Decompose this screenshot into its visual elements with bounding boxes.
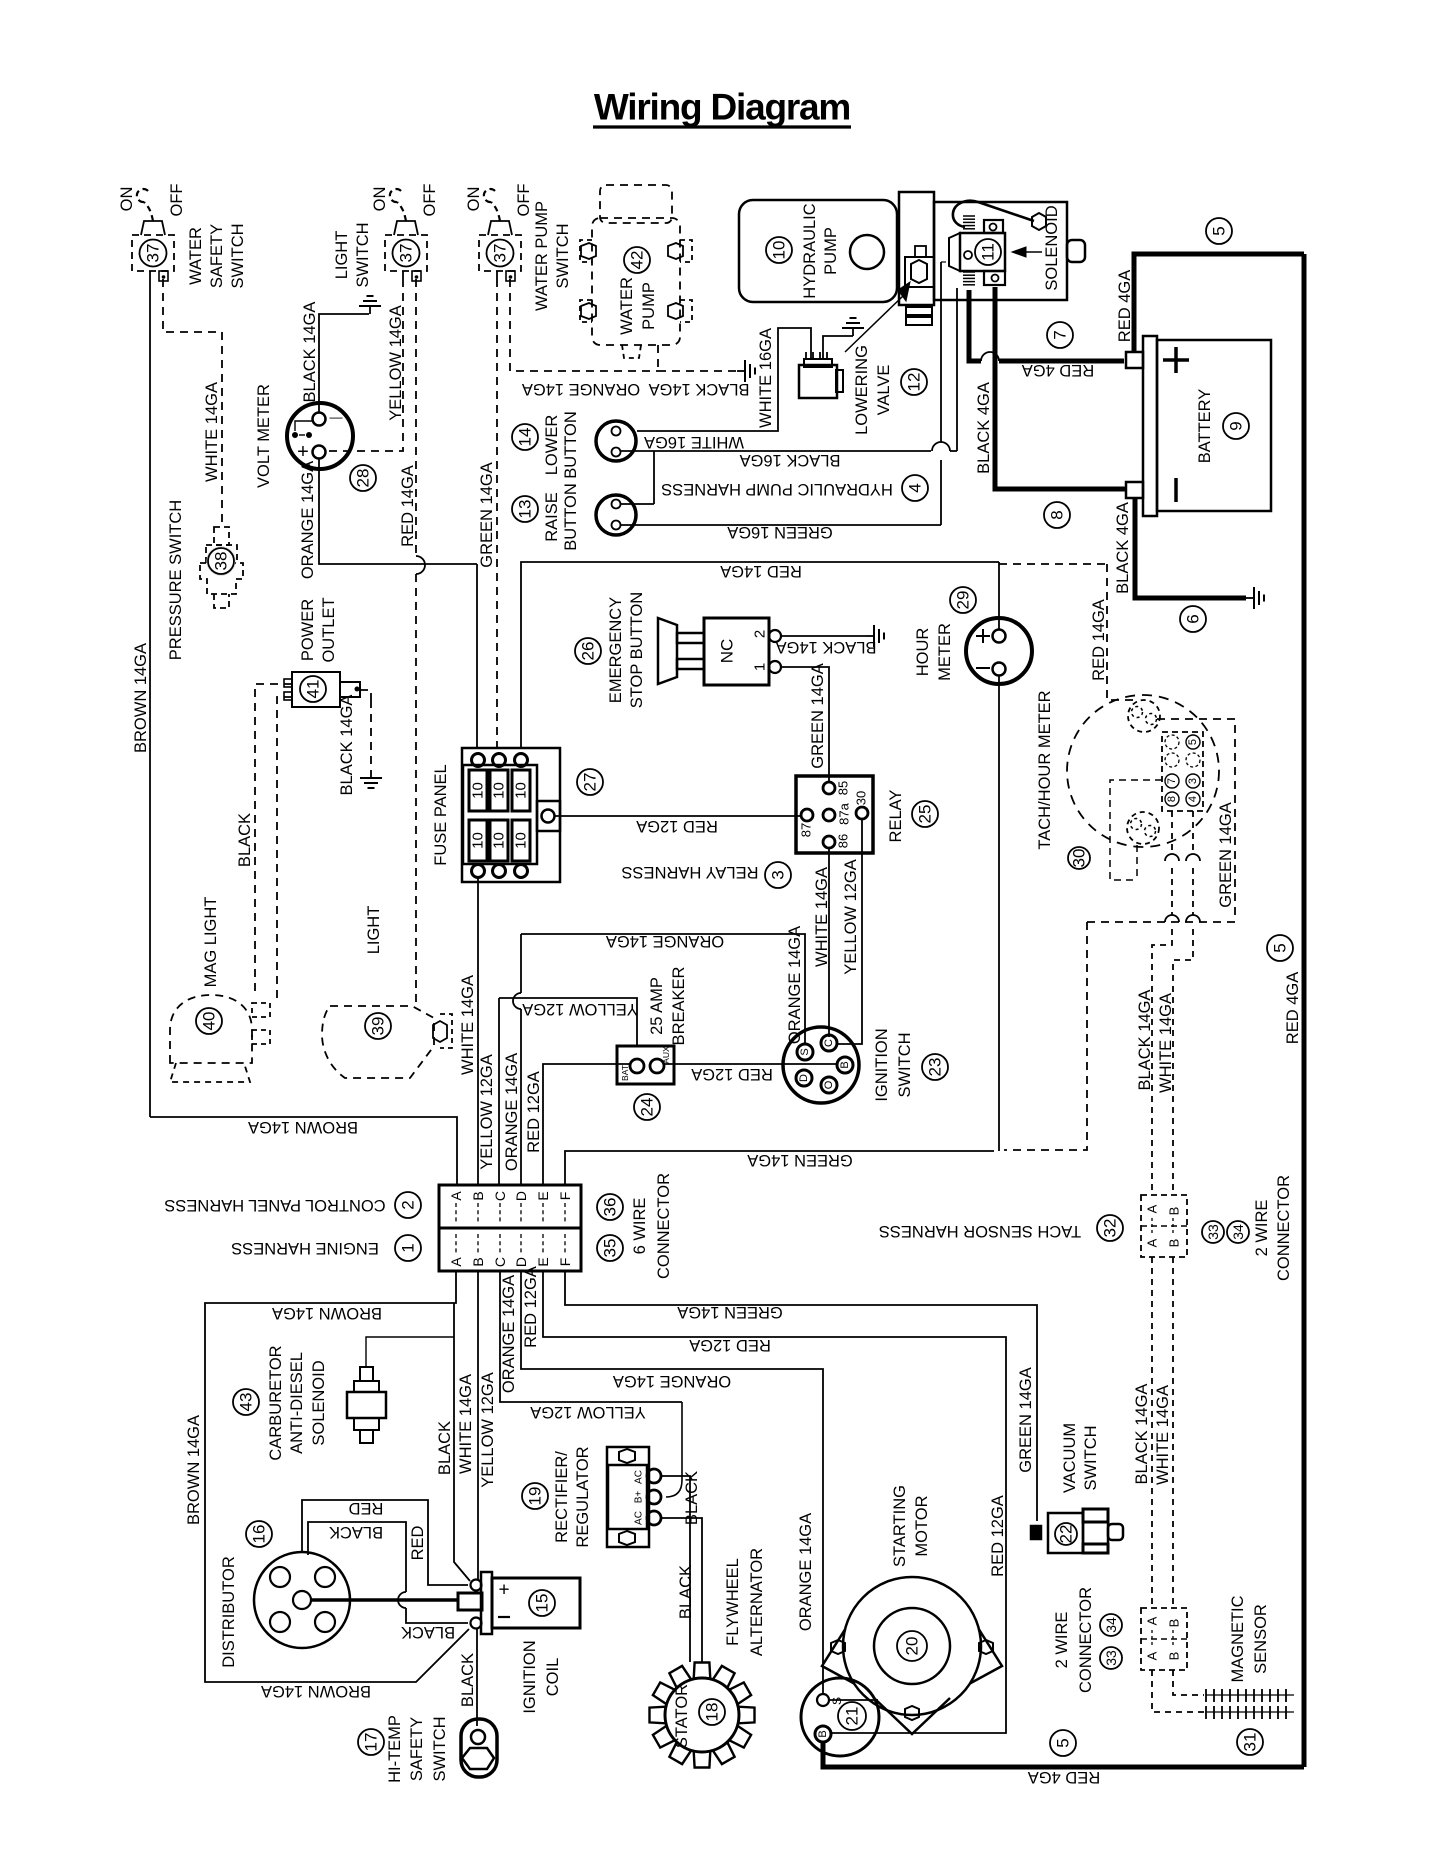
svg-text:SWITCH: SWITCH bbox=[554, 223, 572, 288]
vacuum switch 22 bbox=[1031, 1526, 1041, 1539]
svg-text:RED 12GA: RED 12GA bbox=[522, 1266, 540, 1348]
svg-text:BLACK 14GA: BLACK 14GA bbox=[1136, 990, 1154, 1091]
svg-text:CONTROL PANEL HARNESS: CONTROL PANEL HARNESS bbox=[164, 1196, 385, 1214]
raise button 13 bbox=[596, 495, 636, 535]
svg-text:BLACK: BLACK bbox=[401, 1623, 455, 1641]
svg-text:8: 8 bbox=[1166, 796, 1178, 802]
svg-text:PRESSURE SWITCH: PRESSURE SWITCH bbox=[167, 500, 185, 660]
svg-text:YELLOW 12GA: YELLOW 12GA bbox=[522, 1000, 638, 1018]
svg-text:BLACK: BLACK bbox=[236, 813, 254, 867]
svg-text:NC: NC bbox=[718, 639, 737, 664]
svg-text:ALTERNATOR: ALTERNATOR bbox=[748, 1548, 766, 1656]
svg-text:3: 3 bbox=[769, 870, 788, 879]
svg-text:10: 10 bbox=[770, 241, 789, 260]
power outlet 41 bbox=[292, 672, 340, 707]
svg-text:30: 30 bbox=[854, 791, 869, 805]
svg-text:D: D bbox=[798, 1074, 810, 1082]
light 39 bbox=[322, 1006, 434, 1078]
starting motor 20 bbox=[822, 1612, 866, 1690]
svg-text:6: 6 bbox=[1184, 614, 1203, 623]
yellow 12GA relay 30 to ignition bbox=[837, 819, 862, 1044]
svg-text:SAFETY: SAFETY bbox=[208, 224, 226, 288]
red 4GA solenoid to battery+ bbox=[969, 290, 981, 361]
svg-text:WATER: WATER bbox=[187, 227, 205, 285]
svg-text:D: D bbox=[513, 1257, 529, 1267]
black wire coil to hi-temp switch bbox=[476, 1629, 478, 1726]
svg-text:PUMP: PUMP bbox=[822, 227, 840, 275]
svg-text:BLACK 14GA: BLACK 14GA bbox=[338, 695, 356, 796]
svg-text:42: 42 bbox=[628, 251, 647, 270]
svg-text:YELLOW 12GA: YELLOW 12GA bbox=[842, 859, 860, 975]
svg-text:BLACK 14GA: BLACK 14GA bbox=[649, 380, 750, 398]
brown 14GA switch to connector A bbox=[150, 1117, 457, 1185]
arrow from lowering valve to pump bolt bbox=[845, 296, 903, 352]
svg-text:S: S bbox=[799, 1048, 811, 1055]
brown 14GA engine harness box bbox=[205, 1271, 469, 1682]
svg-text:12: 12 bbox=[905, 373, 924, 392]
svg-text:C: C bbox=[492, 1191, 508, 1201]
svg-text:86: 86 bbox=[836, 834, 851, 848]
svg-text:10: 10 bbox=[513, 832, 530, 849]
black 14GA stop button to ground bbox=[781, 635, 866, 637]
svg-text:YELLOW 14GA: YELLOW 14GA bbox=[387, 305, 405, 421]
yellow 12GA wire C up bbox=[498, 998, 500, 1185]
svg-text:10: 10 bbox=[470, 782, 487, 799]
svg-text:23: 23 bbox=[926, 1058, 945, 1077]
svg-text:39: 39 bbox=[369, 1017, 388, 1036]
svg-text:BLACK: BLACK bbox=[329, 1523, 383, 1541]
6 wire connector 35 36 bbox=[439, 1185, 581, 1271]
dashed wires to lower connector bbox=[1151, 1257, 1153, 1608]
stator 18 bbox=[650, 1663, 755, 1768]
svg-text:PUMP: PUMP bbox=[640, 282, 658, 330]
svg-text:RED 12GA: RED 12GA bbox=[691, 1065, 773, 1083]
magnetic sensor 31 bbox=[1152, 1670, 1204, 1712]
black 16GA wire bbox=[621, 450, 931, 452]
orange 14GA dashed water pump switch bbox=[510, 279, 658, 371]
svg-text:B: B bbox=[1167, 1207, 1182, 1216]
svg-text:+: + bbox=[498, 1580, 509, 1601]
svg-text:HI-TEMP: HI-TEMP bbox=[386, 1715, 404, 1783]
svg-text:5: 5 bbox=[1187, 739, 1199, 745]
white 14GA wire B down through coil bbox=[477, 1271, 479, 1580]
svg-text:AC: AC bbox=[634, 1511, 645, 1525]
svg-text:YELLOW 12GA: YELLOW 12GA bbox=[530, 1403, 646, 1421]
svg-text:WHITE 14GA: WHITE 14GA bbox=[203, 382, 221, 482]
svg-text:14: 14 bbox=[516, 428, 535, 447]
svg-text:GREEN 14GA: GREEN 14GA bbox=[809, 663, 827, 768]
svg-text:STATOR: STATOR bbox=[673, 1684, 691, 1748]
svg-text:B: B bbox=[839, 1061, 851, 1068]
svg-text:SWITCH: SWITCH bbox=[1082, 1425, 1100, 1490]
svg-text:RED 14GA: RED 14GA bbox=[720, 562, 802, 580]
svg-text:A: A bbox=[1145, 1204, 1160, 1213]
svg-text:IGNITION: IGNITION bbox=[521, 1640, 539, 1713]
switch 37 light switch bbox=[385, 235, 427, 271]
svg-text:LOWER: LOWER bbox=[543, 415, 561, 476]
red 4GA starter B to bottom border bbox=[823, 1742, 1304, 1767]
svg-text:87a: 87a bbox=[837, 802, 852, 824]
svg-text:CONNECTOR: CONNECTOR bbox=[1275, 1175, 1293, 1281]
mag light 40 bbox=[170, 995, 252, 1063]
white 14GA relay 86 to ignition C bbox=[828, 848, 830, 1037]
switch 37 water safety switch bbox=[132, 235, 174, 271]
distributor 16 bbox=[254, 1552, 350, 1648]
svg-text:EMERGENCY: EMERGENCY bbox=[607, 597, 625, 703]
svg-text:31: 31 bbox=[1241, 1733, 1260, 1752]
svg-text:36: 36 bbox=[601, 1198, 620, 1217]
svg-text:15: 15 bbox=[533, 1594, 552, 1613]
svg-text:RED 12GA: RED 12GA bbox=[989, 1495, 1007, 1577]
svg-text:OFF: OFF bbox=[421, 184, 439, 217]
relay 25 bbox=[796, 776, 873, 853]
svg-text:43: 43 bbox=[237, 1393, 256, 1412]
svg-text:RED: RED bbox=[349, 1499, 384, 1517]
svg-text:A: A bbox=[1145, 1238, 1160, 1247]
svg-text:32: 32 bbox=[1101, 1219, 1120, 1238]
svg-text:SWITCH: SWITCH bbox=[431, 1716, 449, 1781]
svg-text:38: 38 bbox=[212, 552, 231, 571]
black 4GA solenoid to battery- bbox=[995, 287, 1125, 489]
svg-text:BLACK 4GA: BLACK 4GA bbox=[1114, 502, 1132, 594]
svg-text:MAGNETIC: MAGNETIC bbox=[1229, 1595, 1247, 1682]
svg-text:WHITE 14GA: WHITE 14GA bbox=[1154, 1385, 1172, 1485]
svg-text:1: 1 bbox=[752, 663, 769, 671]
green 14GA wire F up to bus bbox=[565, 1151, 994, 1185]
svg-text:22: 22 bbox=[1057, 1525, 1076, 1544]
svg-text:DISTRIBUTOR: DISTRIBUTOR bbox=[220, 1556, 238, 1668]
white 16GA wire lower button to valve bbox=[637, 328, 811, 431]
svg-text:2: 2 bbox=[399, 1200, 418, 1209]
svg-text:ORANGE 14GA: ORANGE 14GA bbox=[522, 380, 640, 398]
svg-text:YELLOW 12GA: YELLOW 12GA bbox=[478, 1054, 496, 1170]
svg-text:O: O bbox=[823, 1080, 835, 1089]
svg-text:LIGHT: LIGHT bbox=[333, 231, 351, 280]
svg-text:B: B bbox=[817, 1730, 829, 1737]
svg-text:41: 41 bbox=[304, 680, 323, 699]
wire water pump to orange/black dashed bbox=[657, 345, 659, 371]
svg-text:2 WIRE: 2 WIRE bbox=[1053, 1612, 1071, 1669]
green 14GA dashed tach loop bbox=[1157, 719, 1235, 917]
svg-text:SWITCH: SWITCH bbox=[354, 222, 372, 287]
svg-text:B: B bbox=[470, 1257, 486, 1266]
svg-text:10: 10 bbox=[491, 832, 508, 849]
svg-text:METER: METER bbox=[936, 623, 954, 681]
svg-text:GREEN 14GA: GREEN 14GA bbox=[1217, 802, 1235, 907]
svg-text:B+: B+ bbox=[634, 1491, 645, 1504]
switch 37 water pump switch bbox=[479, 235, 521, 271]
svg-text:WHITE 16GA: WHITE 16GA bbox=[757, 328, 775, 428]
solenoid relay internals bbox=[960, 233, 1005, 271]
svg-text:AUX: AUX bbox=[661, 1046, 671, 1064]
hydraulic pump 10 bbox=[739, 200, 897, 302]
svg-text:OFF: OFF bbox=[168, 184, 186, 217]
lower button 14 bbox=[596, 421, 636, 461]
svg-text:REGULATOR: REGULATOR bbox=[574, 1446, 592, 1547]
black 14GA volt meter to ground bbox=[319, 314, 369, 413]
svg-text:ANTI-DIESEL: ANTI-DIESEL bbox=[288, 1352, 306, 1454]
svg-text:MOTOR: MOTOR bbox=[913, 1495, 931, 1556]
svg-text:BUTTON: BUTTON bbox=[562, 411, 580, 479]
svg-text:3: 3 bbox=[1187, 778, 1199, 784]
tach wires down to 2 wire connector bbox=[1171, 811, 1173, 855]
svg-text:BLACK 4GA: BLACK 4GA bbox=[975, 382, 993, 474]
fuse panel 27 bbox=[462, 748, 560, 882]
svg-text:C: C bbox=[492, 1257, 508, 1267]
svg-text:6 WIRE: 6 WIRE bbox=[631, 1198, 649, 1255]
starter terminals 21 bbox=[801, 1678, 879, 1756]
svg-text:WHITE 14GA: WHITE 14GA bbox=[457, 1374, 475, 1474]
svg-text:F: F bbox=[557, 1192, 573, 1201]
fuse panel output tab bbox=[537, 801, 560, 831]
svg-text:RED 4GA: RED 4GA bbox=[1284, 972, 1302, 1044]
svg-text:17: 17 bbox=[362, 1733, 381, 1752]
svg-text:33: 33 bbox=[1205, 1224, 1221, 1240]
svg-text:CARBURETOR: CARBURETOR bbox=[267, 1345, 285, 1460]
svg-text:HYDRAULIC: HYDRAULIC bbox=[801, 203, 819, 298]
svg-text:BREAKER: BREAKER bbox=[670, 966, 688, 1045]
arrow pointing to solenoid bbox=[1026, 251, 1042, 253]
green 14GA dashed water pump switch to fuse bbox=[496, 279, 498, 748]
svg-text:ORANGE 14GA: ORANGE 14GA bbox=[500, 1275, 518, 1393]
solenoid 11 body bbox=[934, 202, 1067, 300]
volt meter 28 bbox=[287, 403, 353, 469]
svg-text:RELAY HARNESS: RELAY HARNESS bbox=[622, 863, 759, 881]
svg-text:ON: ON bbox=[465, 187, 483, 212]
svg-text:ORANGE 14GA: ORANGE 14GA bbox=[797, 1513, 815, 1631]
svg-text:ORANGE 14GA: ORANGE 14GA bbox=[613, 1372, 731, 1390]
svg-text:VALVE: VALVE bbox=[875, 365, 893, 416]
hi-temp safety switch 17 bbox=[461, 1719, 497, 1777]
svg-text:8: 8 bbox=[1048, 510, 1067, 519]
svg-text:BROWN 14GA: BROWN 14GA bbox=[261, 1682, 371, 1700]
svg-text:TACH SENSOR HARNESS: TACH SENSOR HARNESS bbox=[879, 1222, 1081, 1240]
svg-text:HYDRAULIC PUMP HARNESS: HYDRAULIC PUMP HARNESS bbox=[661, 480, 893, 498]
svg-text:4: 4 bbox=[1187, 796, 1199, 802]
svg-text:RED 4GA: RED 4GA bbox=[1022, 361, 1094, 379]
svg-text:B: B bbox=[1167, 1619, 1182, 1628]
svg-text:WATER: WATER bbox=[618, 277, 636, 335]
2 wire connector 33 34 lower bbox=[1141, 1608, 1187, 1670]
pump mount bracket bbox=[899, 192, 934, 305]
svg-text:LOWERING: LOWERING bbox=[853, 345, 871, 435]
svg-text:STOP BUTTON: STOP BUTTON bbox=[628, 592, 646, 708]
svg-text:—: — bbox=[330, 410, 343, 425]
svg-text:LIGHT: LIGHT bbox=[365, 906, 383, 955]
svg-text:WHITE 14GA: WHITE 14GA bbox=[813, 867, 831, 967]
svg-text:FUSE PANEL: FUSE PANEL bbox=[432, 764, 450, 865]
red 12GA breaker AUX to ignition B bbox=[664, 1063, 838, 1065]
carburetor anti-diesel solenoid 43 bbox=[233, 1389, 259, 1415]
green 14GA stop button to relay 85 bbox=[781, 667, 829, 782]
svg-text:37: 37 bbox=[144, 244, 163, 263]
red 12GA fuse to relay 87 bbox=[555, 815, 800, 817]
svg-text:24: 24 bbox=[638, 1098, 657, 1117]
svg-text:34: 34 bbox=[1230, 1224, 1246, 1240]
svg-text:33: 33 bbox=[1103, 1650, 1119, 1666]
svg-text:26: 26 bbox=[579, 642, 598, 661]
svg-text:40: 40 bbox=[200, 1012, 219, 1031]
svg-text:13: 13 bbox=[516, 500, 535, 519]
svg-text:4: 4 bbox=[906, 483, 925, 492]
svg-text:RED: RED bbox=[409, 1526, 427, 1561]
black wires rectifier to stator bbox=[661, 1476, 690, 1662]
orange 14GA wire D up to ignition bbox=[520, 1009, 522, 1185]
svg-text:BROWN 14GA: BROWN 14GA bbox=[272, 1304, 382, 1322]
red 14GA bus wire bbox=[521, 562, 999, 748]
red wire distributor to coil+ bbox=[302, 1500, 468, 1585]
svg-text:35: 35 bbox=[601, 1239, 620, 1258]
svg-text:SOLENOID: SOLENOID bbox=[310, 1360, 328, 1445]
tach/hour meter 30 dashed circle bbox=[1067, 695, 1219, 847]
svg-text:OUTLET: OUTLET bbox=[320, 597, 338, 662]
black wire distributor to coil- bbox=[308, 1522, 406, 1592]
svg-text:10: 10 bbox=[491, 782, 508, 799]
svg-text:BLACK: BLACK bbox=[459, 1653, 477, 1707]
svg-text:Wiring Diagram: Wiring Diagram bbox=[594, 87, 850, 128]
yellow 14GA dashed light switch to volt meter bbox=[328, 279, 403, 451]
ground battery bbox=[1246, 597, 1254, 599]
red 4GA battery+ loop bbox=[1134, 254, 1304, 352]
svg-text:RECTIFIER/: RECTIFIER/ bbox=[553, 1451, 571, 1543]
svg-text:E: E bbox=[535, 1257, 551, 1266]
svg-text:37: 37 bbox=[491, 244, 510, 263]
svg-text:BLACK 14GA: BLACK 14GA bbox=[1133, 1384, 1151, 1485]
svg-text:85: 85 bbox=[836, 781, 851, 795]
svg-text:RED 14GA: RED 14GA bbox=[1090, 599, 1108, 681]
tach bottom connector bbox=[1127, 812, 1159, 844]
battery 9 bbox=[1126, 352, 1143, 368]
lowering valve 12 bbox=[799, 365, 837, 398]
svg-text:10: 10 bbox=[513, 782, 530, 799]
svg-text:BROWN 14GA: BROWN 14GA bbox=[132, 643, 150, 753]
svg-text:BROWN 14GA: BROWN 14GA bbox=[185, 1415, 203, 1525]
svg-text:VOLT METER: VOLT METER bbox=[255, 384, 273, 488]
svg-text:WHITE 16GA: WHITE 16GA bbox=[644, 433, 744, 451]
right border red 4GA bbox=[1302, 254, 1307, 1767]
svg-text:2: 2 bbox=[752, 630, 769, 638]
emergency stop button 26 bbox=[658, 618, 677, 684]
svg-text:1: 1 bbox=[399, 1243, 418, 1252]
svg-text:RED 4GA: RED 4GA bbox=[1028, 1768, 1100, 1786]
white 14GA fuse panel down to connector B bbox=[477, 878, 479, 1185]
svg-text:10: 10 bbox=[470, 832, 487, 849]
solenoid hex bolt and cable bbox=[1032, 213, 1046, 230]
svg-text:WHITE 14GA: WHITE 14GA bbox=[1157, 993, 1175, 1093]
svg-text:ENGINE HARNESS: ENGINE HARNESS bbox=[231, 1239, 379, 1257]
svg-text:RELAY: RELAY bbox=[887, 790, 905, 843]
svg-text:GREEN 16GA: GREEN 16GA bbox=[727, 523, 832, 541]
svg-text:18: 18 bbox=[703, 1703, 722, 1722]
ground above lowering valve bbox=[823, 336, 853, 359]
svg-text:BLACK: BLACK bbox=[436, 1421, 454, 1475]
svg-text:BROWN 14GA: BROWN 14GA bbox=[248, 1118, 358, 1136]
svg-text:BUTTON: BUTTON bbox=[562, 483, 580, 551]
orange 14GA volt meter to fuse panel bbox=[319, 458, 477, 564]
svg-text:SWITCH: SWITCH bbox=[896, 1032, 914, 1097]
green 16GA wire bbox=[621, 524, 941, 526]
orange 14GA wire D down to starter S bbox=[521, 1271, 823, 1694]
svg-text:IGNITION: IGNITION bbox=[873, 1028, 891, 1101]
svg-text:A: A bbox=[1145, 1616, 1160, 1625]
svg-text:16: 16 bbox=[250, 1525, 269, 1544]
svg-text:SAFETY: SAFETY bbox=[408, 1717, 426, 1781]
ignition switch 23 bbox=[783, 1027, 859, 1103]
svg-text:27: 27 bbox=[581, 773, 600, 792]
svg-text:S: S bbox=[830, 1697, 844, 1705]
svg-text:CONNECTOR: CONNECTOR bbox=[1077, 1587, 1095, 1693]
svg-text:WHITE 14GA: WHITE 14GA bbox=[459, 975, 477, 1075]
svg-text:B: B bbox=[470, 1191, 486, 1200]
svg-text:5: 5 bbox=[1210, 226, 1229, 235]
svg-text:7: 7 bbox=[1051, 330, 1070, 339]
svg-text:SWITCH: SWITCH bbox=[229, 223, 247, 288]
svg-text:29: 29 bbox=[954, 591, 973, 610]
svg-text:STARTING: STARTING bbox=[891, 1485, 909, 1567]
svg-text:19: 19 bbox=[526, 1487, 545, 1506]
svg-text:VACUUM: VACUUM bbox=[1061, 1423, 1079, 1493]
svg-text:TACH/HOUR METER: TACH/HOUR METER bbox=[1036, 690, 1054, 849]
svg-text:25: 25 bbox=[916, 805, 935, 824]
white 14GA dashed to pressure switch bbox=[163, 279, 222, 332]
svg-text:RED 12GA: RED 12GA bbox=[689, 1336, 771, 1354]
svg-text:E: E bbox=[535, 1191, 551, 1200]
red 14GA dashed light switch to light 39 bbox=[415, 279, 417, 556]
svg-text:BATTERY: BATTERY bbox=[1196, 389, 1214, 464]
svg-text:D: D bbox=[513, 1191, 529, 1201]
svg-text:F: F bbox=[557, 1258, 573, 1267]
green 14GA hour meter- down to bus bbox=[998, 676, 1000, 1151]
black 14GA dashed to ground bbox=[658, 370, 737, 372]
tach dashed box left bbox=[1110, 780, 1162, 880]
red 12GA wire E down to starter bbox=[543, 1271, 1006, 1733]
svg-text:7: 7 bbox=[1166, 778, 1178, 784]
svg-text:RED 12GA: RED 12GA bbox=[636, 817, 718, 835]
svg-text:BLACK 14GA: BLACK 14GA bbox=[301, 302, 319, 403]
black wire box corner down to coil+ bbox=[454, 1303, 470, 1581]
svg-text:5: 5 bbox=[1054, 1738, 1073, 1747]
svg-text:GREEN 14GA: GREEN 14GA bbox=[747, 1151, 852, 1169]
ignition coil 15 bbox=[458, 1593, 482, 1610]
svg-text:GREEN 14GA: GREEN 14GA bbox=[1017, 1367, 1035, 1472]
svg-text:MAG LIGHT: MAG LIGHT bbox=[202, 897, 220, 988]
black 14GA outlet to ground bbox=[360, 690, 371, 700]
tach pin block bbox=[1162, 732, 1203, 811]
svg-text:ON: ON bbox=[118, 187, 136, 212]
svg-text:37: 37 bbox=[397, 244, 416, 263]
wire red bus to hour meter+ bbox=[998, 562, 1000, 630]
svg-text:34: 34 bbox=[1103, 1617, 1119, 1633]
svg-text:OFF: OFF bbox=[515, 184, 533, 217]
svg-text:HOUR: HOUR bbox=[914, 628, 932, 677]
svg-text:87: 87 bbox=[799, 823, 814, 837]
water pump 42 bbox=[600, 185, 672, 223]
svg-text:POWER: POWER bbox=[299, 599, 317, 661]
yellow 12GA wire C down to rectifier bbox=[500, 1271, 682, 1402]
svg-text:A: A bbox=[448, 1257, 464, 1267]
svg-text:ORANGE 14GA: ORANGE 14GA bbox=[786, 926, 804, 1044]
svg-text:B: B bbox=[1167, 1239, 1182, 1248]
svg-text:30: 30 bbox=[1070, 849, 1089, 868]
black dashed wires outlet to mag light bbox=[255, 684, 292, 995]
black 4GA battery- to ground bbox=[1135, 498, 1246, 598]
rectifier/regulator 19 bbox=[607, 1447, 649, 1547]
svg-text:BLACK 16GA: BLACK 16GA bbox=[740, 451, 841, 469]
tach top connector bbox=[1128, 700, 1160, 732]
svg-text:ORANGE 14GA: ORANGE 14GA bbox=[503, 1053, 521, 1171]
svg-text:BAT: BAT bbox=[620, 1065, 630, 1081]
svg-text:5: 5 bbox=[1271, 943, 1290, 952]
